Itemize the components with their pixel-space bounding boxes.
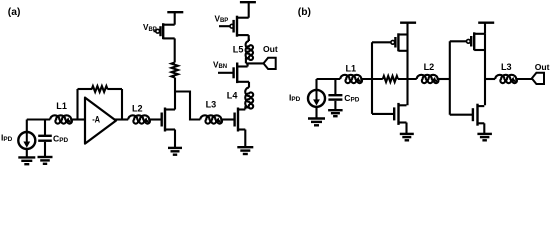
label -A (a) [92, 114, 100, 124]
op-amp -A (a) [85, 98, 116, 144]
transistor M1 (a) [162, 108, 175, 132]
label (a) [8, 7, 21, 18]
wire PMOS2 drain to L5 (a) [248, 35, 250, 41]
svg-text:L2: L2 [132, 104, 143, 114]
label L1 (b) [346, 63, 357, 73]
inductor L2 (b) [417, 75, 439, 83]
ground under M1 (a) [168, 148, 182, 155]
svg-text:CPD: CPD [53, 133, 68, 144]
resistor RF (b) [383, 76, 398, 82]
ground under IPD (a) [18, 157, 35, 164]
svg-text:L1: L1 [56, 101, 67, 111]
wire M2 source to ground (a) [244, 130, 246, 147]
ground under IPD (b) [308, 119, 325, 126]
vdd rail stage2 (b) [478, 22, 494, 24]
inductor L5 (a) [246, 39, 253, 64]
transistor M2 (a) [235, 108, 246, 132]
label L4 (a) [227, 91, 239, 101]
label CPD (b) [344, 93, 359, 104]
capacitor CPD (a) [38, 120, 52, 157]
wire rail to pmos source s2 (b) [484, 23, 486, 34]
wire L1 to amp (a) [71, 118, 85, 120]
wire VBP gate 1 (a) [154, 30, 156, 32]
label L5 (a) [233, 44, 244, 54]
wire amp output (a) [115, 118, 129, 120]
output pad Out (b) [532, 73, 544, 84]
svg-text:L3: L3 [206, 100, 217, 110]
label Out (a) [263, 44, 278, 54]
svg-text:L1: L1 [346, 63, 357, 73]
wire L3 to M2 gate (a) [221, 118, 235, 120]
wire L1 to stage1 (b) [361, 78, 383, 80]
transistor NMOS stage1 (b) [394, 103, 406, 125]
current source IPD (b) [308, 79, 325, 118]
wire stage1 output riser (b) [406, 35, 408, 106]
wire VBP gate 2 (a) [219, 25, 230, 27]
resistor RF (a) [92, 86, 108, 92]
vdd rail 1 (a) [167, 11, 183, 13]
wire feedback right riser (a) [121, 89, 123, 120]
wire feedback right (b) [398, 78, 417, 80]
inductor L1 (a) [50, 115, 72, 123]
wire VBN drain to out node (a) [247, 63, 249, 66]
wire rail1 to PMOS source (a) [174, 12, 176, 25]
ground under CPD (a) [38, 157, 53, 164]
transistor NMOS stage2 (b) [473, 104, 484, 126]
svg-text:-A: -A [92, 114, 100, 124]
svg-text:Out: Out [263, 44, 278, 54]
svg-text:L2: L2 [424, 62, 435, 72]
ground under stage1 (b) [400, 134, 414, 140]
wire input node (b) [317, 78, 341, 80]
vdd rail stage1 (b) [400, 22, 416, 24]
label CPD (a) [53, 133, 68, 144]
svg-text:VBP: VBP [215, 14, 229, 24]
transistor VBN cascode (a) [234, 63, 249, 84]
label Out (b) [535, 62, 550, 72]
label L3 (b) [501, 62, 512, 72]
wire stage2 input riser (b) [449, 41, 451, 114]
svg-text:L4: L4 [227, 91, 239, 101]
vdd rail 2 (a) [240, 1, 256, 3]
inductor L3 (b) [495, 75, 517, 83]
label (b) [298, 7, 311, 18]
wire rail to pmos source s1 (b) [406, 23, 408, 35]
wire M2 drain to L4 (a) [244, 108, 246, 110]
label L1 (a) [56, 101, 67, 111]
ground under M2 (a) [237, 147, 253, 154]
wire M1 source to ground (a) [174, 130, 176, 148]
inductor L3 (a) [200, 115, 222, 123]
transistor PMOS stage2 (b) [467, 32, 486, 50]
svg-text:IPD: IPD [289, 92, 301, 103]
svg-text:CPD: CPD [344, 93, 359, 104]
ground under CPD (b) [328, 110, 343, 116]
inductor L4 (a) [245, 82, 253, 110]
label IPD (a) [1, 132, 13, 143]
svg-text:IPD: IPD [1, 132, 13, 143]
label VBP 1 (a) [143, 23, 157, 33]
label IPD (b) [289, 92, 301, 103]
wire nmos source to ground s2 (b) [483, 123, 485, 133]
current source IPD (a) [18, 120, 35, 157]
wire L2 to stage2 (b) [437, 78, 450, 80]
transistor PMOS2 VBP (a) [230, 16, 249, 37]
label VBP 2 (a) [215, 14, 229, 24]
inductor L1 (b) [340, 75, 362, 83]
wire stage2 out (b) [485, 78, 495, 80]
resistor Rbias (a) [172, 63, 178, 78]
svg-text:Out: Out [535, 62, 550, 72]
label L2 (b) [424, 62, 435, 72]
wire input node left (a) [27, 118, 50, 120]
svg-text:VBN: VBN [213, 60, 227, 70]
wire L2 to M1 gate (a) [149, 118, 162, 120]
transistor PMOS1 VBP (a) [156, 23, 175, 39]
label L2 (a) [132, 104, 143, 114]
wire stage2 pmos gate (b) [450, 40, 467, 42]
svg-text:L5: L5 [233, 44, 244, 54]
wire stage1 nmos gate (b) [372, 113, 394, 115]
wire PMOS1 drain to resistor (a) [174, 38, 176, 62]
wire rail2 to PMOS2 source (a) [248, 2, 250, 18]
capacitor CPD (b) [328, 79, 342, 110]
wire out node (a) [246, 62, 264, 64]
inductor L2 (a) [128, 115, 150, 123]
label VBN (a) [213, 60, 227, 70]
ground under stage2 (b) [477, 134, 492, 140]
output pad Out (a) [264, 58, 276, 69]
wire stage1 pmos gate (b) [372, 41, 391, 43]
wire stage2 output riser (b) [484, 34, 486, 105]
label L3 (a) [206, 100, 217, 110]
svg-text:(b): (b) [298, 7, 311, 18]
wire stage1 input riser (b) [371, 42, 373, 114]
wire branch to L3 (a) [175, 92, 201, 120]
wire nmos source to ground s1 (b) [405, 123, 407, 134]
wire VBN gate (a) [218, 72, 234, 74]
transistor PMOS stage1 (b) [391, 33, 408, 51]
wire stage2 nmos gate (b) [450, 114, 473, 116]
wire feedback top (a) [78, 88, 123, 90]
wire feedback left riser (a) [76, 89, 78, 120]
wire M1 drain riser (a) [174, 78, 176, 110]
svg-text:(a): (a) [8, 7, 21, 18]
svg-text:L3: L3 [501, 62, 512, 72]
wire L3 to pad (b) [516, 78, 533, 80]
